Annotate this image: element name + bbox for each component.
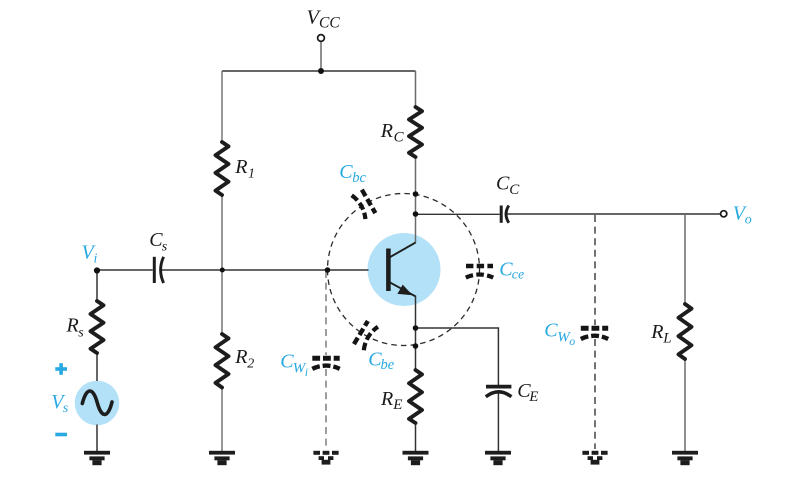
label R1 — [234, 156, 255, 181]
ground dashed (CWi branch) — [313, 451, 338, 465]
label RE — [380, 388, 402, 413]
svg-text:R: R — [66, 315, 79, 337]
resistor RL — [679, 304, 692, 359]
svg-text:C: C — [544, 319, 558, 341]
svg-text:R: R — [234, 156, 247, 178]
label CWo — [544, 319, 575, 348]
ground (RE branch) — [403, 451, 429, 465]
svg-text:o: o — [745, 213, 752, 228]
node VCC rail junction — [318, 68, 324, 74]
label Cce — [499, 258, 524, 282]
svg-text:1: 1 — [248, 166, 255, 181]
wire R1 branch top — [221, 71, 223, 142]
wire R2 to ground — [221, 388, 223, 452]
svg-text:R: R — [650, 321, 663, 343]
label Cbe — [368, 348, 395, 373]
svg-text:R: R — [234, 346, 247, 368]
resistor RC — [409, 107, 422, 157]
wire RL to ground — [684, 359, 686, 451]
parasitic capacitor Cce (dashed) — [466, 266, 493, 278]
label CC — [496, 172, 520, 198]
node emitter CE junction — [413, 325, 419, 331]
label Vi — [82, 241, 98, 266]
ground (RL branch) — [672, 451, 698, 465]
svg-text:CC: CC — [319, 15, 340, 32]
wire base segment Cs to transistor — [162, 269, 369, 271]
Vs source circle — [75, 381, 120, 426]
node Vi — [94, 267, 100, 273]
wire emitter down — [415, 296, 417, 371]
wiring capacitor CWo (dashed) — [581, 328, 608, 339]
dashed wire CWi upper — [325, 271, 327, 355]
wire top rail — [222, 70, 416, 72]
minus sign — [55, 433, 67, 437]
svg-text:R: R — [380, 120, 393, 142]
resistor RE — [409, 370, 422, 423]
svg-text:s: s — [63, 401, 69, 416]
wire base left segment Vi to Cs — [97, 269, 153, 271]
ground (Rs branch) — [84, 451, 110, 465]
transistor Q1 — [388, 243, 415, 297]
svg-text:ce: ce — [512, 268, 524, 283]
wire Rs branch upper — [96, 270, 98, 301]
svg-text:L: L — [662, 331, 671, 347]
wire emitter node to CE branch — [416, 328, 499, 385]
wire collector node to CC — [416, 213, 500, 215]
ground (CE branch) — [485, 451, 511, 465]
label Cbc — [339, 161, 366, 186]
parasitic capacitor Cbc (dashed, rotated on circle) — [352, 190, 376, 220]
wire CE to ground — [497, 394, 499, 452]
label Vo — [733, 203, 752, 228]
label CE — [517, 380, 538, 405]
svg-text:s: s — [162, 239, 168, 254]
label Vs — [51, 391, 69, 416]
svg-text:C: C — [496, 172, 510, 194]
label R2 — [234, 346, 254, 371]
wire RE to ground — [415, 423, 417, 451]
svg-text:i: i — [94, 251, 98, 266]
VCC terminal — [318, 35, 325, 42]
capacitor CC — [501, 206, 509, 223]
wire RC to collector — [415, 157, 417, 243]
dashed hybrid-pi boundary circle — [328, 194, 480, 346]
node base bias junction — [220, 268, 225, 273]
Vo terminal — [721, 211, 727, 217]
node collector output junction — [413, 211, 419, 217]
svg-text:i: i — [305, 365, 308, 379]
svg-text:o: o — [569, 334, 575, 348]
svg-text:bc: bc — [352, 170, 366, 186]
node emitter boundary junction — [413, 343, 419, 349]
svg-text:be: be — [381, 357, 395, 373]
svg-text:2: 2 — [247, 356, 254, 371]
ground (R2 branch) — [209, 451, 235, 465]
svg-text:C: C — [509, 182, 520, 198]
dashed wire CWo upper — [594, 215, 596, 325]
resistor Rs — [91, 301, 104, 353]
capacitor CE — [486, 387, 512, 397]
svg-text:E: E — [392, 397, 402, 413]
label RC — [380, 120, 405, 146]
dashed wire CWo lower — [594, 339, 596, 449]
label Rs — [66, 315, 85, 341]
label VCC — [307, 7, 341, 32]
svg-text:s: s — [78, 326, 84, 341]
wiring capacitor CWi (dashed) — [312, 358, 339, 369]
node collector boundary junction — [413, 191, 419, 197]
resistor R2 — [216, 334, 229, 388]
wire R1 to base node to R2 — [221, 195, 223, 334]
dashed wire CWi lower — [325, 369, 327, 449]
resistor R1 — [216, 142, 229, 195]
svg-text:C: C — [394, 130, 405, 146]
plus sign — [55, 363, 67, 375]
capacitor Cs — [154, 257, 163, 283]
wire VCC stub — [320, 42, 322, 72]
transistor body fill — [368, 233, 441, 306]
sine symbol in Vs — [82, 391, 112, 414]
svg-text:R: R — [380, 388, 393, 410]
parasitic capacitor Cbe (dashed, rotated on circle) — [354, 321, 378, 350]
svg-text:C: C — [339, 161, 353, 183]
wire RL branch top — [684, 214, 686, 304]
svg-text:E: E — [528, 389, 538, 405]
wire Rs to source — [96, 353, 98, 381]
wire CC to output terminal — [507, 213, 720, 215]
wire source to ground — [96, 425, 98, 452]
node base boundary junction — [325, 267, 331, 273]
label Cs — [149, 229, 168, 254]
wire RC branch top — [415, 71, 417, 107]
ground dashed (CWo branch) — [582, 451, 607, 465]
label RL — [650, 321, 671, 347]
label CWi — [280, 350, 308, 379]
